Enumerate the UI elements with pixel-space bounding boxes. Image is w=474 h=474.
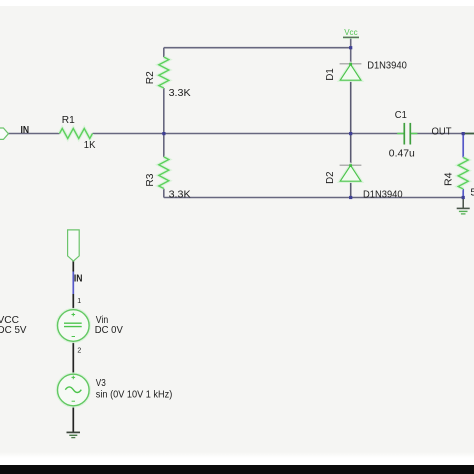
svg-text:3.3K: 3.3K bbox=[169, 189, 191, 201]
svg-text:OUT: OUT bbox=[432, 126, 453, 138]
svg-text:R2: R2 bbox=[144, 71, 156, 84]
svg-text:50: 50 bbox=[470, 186, 474, 198]
svg-text:IN: IN bbox=[74, 273, 83, 285]
svg-text:sin (0V 10V 1 kHz): sin (0V 10V 1 kHz) bbox=[96, 389, 173, 401]
svg-text:2: 2 bbox=[77, 347, 81, 354]
svg-text:D1: D1 bbox=[324, 68, 336, 81]
svg-text:1: 1 bbox=[77, 298, 81, 305]
svg-text:C1: C1 bbox=[395, 109, 407, 121]
svg-text:3.3K: 3.3K bbox=[169, 87, 191, 99]
svg-text:R4: R4 bbox=[442, 172, 454, 186]
svg-text:0.47u: 0.47u bbox=[389, 147, 415, 159]
svg-text:R3: R3 bbox=[144, 173, 156, 186]
svg-text:D1N3940: D1N3940 bbox=[367, 60, 407, 72]
svg-text:IN: IN bbox=[21, 124, 30, 136]
svg-text:1K: 1K bbox=[84, 139, 96, 151]
svg-text:D1N3940: D1N3940 bbox=[363, 188, 403, 200]
svg-text:DC 0V: DC 0V bbox=[95, 324, 123, 336]
svg-text:DC 5V: DC 5V bbox=[0, 324, 27, 336]
svg-text:Vcc: Vcc bbox=[344, 27, 358, 37]
svg-text:D2: D2 bbox=[324, 171, 336, 184]
svg-text:V3: V3 bbox=[96, 377, 106, 389]
svg-text:R1: R1 bbox=[62, 114, 75, 126]
